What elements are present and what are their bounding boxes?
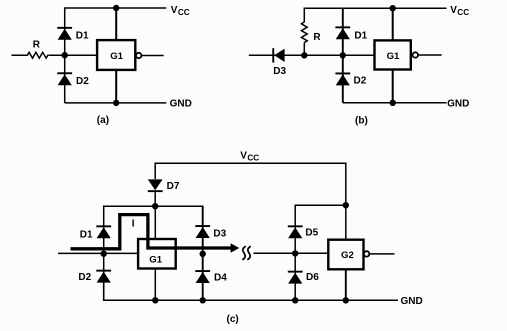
- diode D2 (a): [57, 72, 72, 85]
- wire output line G2 (c): [370, 253, 395, 255]
- svg-text:GND: GND: [401, 296, 423, 307]
- node D7 junction (c): [152, 203, 158, 209]
- wire D3-D4 branch vertical (c): [202, 206, 204, 300]
- svg-text:GND: GND: [447, 98, 469, 109]
- wire GND rail (c): [104, 282, 398, 300]
- wire G1 supply verticals (c): [154, 206, 156, 239]
- gate G2 (c): [328, 240, 363, 270]
- svg-text:GND: GND: [170, 98, 192, 109]
- svg-text:D2: D2: [76, 76, 89, 87]
- svg-text:D1: D1: [354, 31, 367, 42]
- svg-text:D6: D6: [306, 272, 319, 283]
- wire upper clamp rail left (c): [104, 206, 203, 226]
- svg-text:(b): (b): [355, 116, 368, 127]
- resistor R (a): [27, 52, 48, 58]
- wire input line (c): [58, 252, 138, 254]
- node R top junction (b): [301, 52, 307, 58]
- wire G2 lower vertical (c): [345, 269, 347, 300]
- svg-text:(a): (a): [97, 115, 109, 126]
- diode D3 (c): [195, 225, 210, 238]
- diode D4 (c): [195, 270, 210, 283]
- svg-text:R: R: [313, 32, 321, 43]
- diode D1 (b): [335, 26, 350, 39]
- wire R lower lead (b): [303, 43, 305, 56]
- svg-text:CC: CC: [178, 8, 190, 17]
- break squiggle (c): [242, 246, 246, 260]
- wire input line (a): [12, 54, 98, 56]
- resistor R (b): [301, 22, 307, 43]
- node D3 output junction (c): [200, 251, 206, 257]
- wire GND rail (b): [343, 102, 447, 104]
- svg-text:D2: D2: [78, 272, 91, 283]
- svg-text:D1: D1: [76, 31, 89, 42]
- node input junction (c): [101, 251, 107, 257]
- diode D1 (a): [57, 27, 72, 40]
- wire G1 supply verticals (a): [115, 8, 117, 40]
- gate G1 (b): [375, 40, 411, 69]
- svg-text:G1: G1: [387, 51, 400, 62]
- node VCC junction (b): [390, 5, 396, 11]
- wire D1-D2 branch vertical (c): [103, 226, 105, 301]
- node GND junction (a): [113, 100, 119, 106]
- wire output line (a): [142, 55, 164, 57]
- node input junction (a): [61, 52, 67, 58]
- node GND junction (b): [390, 100, 396, 106]
- diode D7 (c): [148, 179, 163, 192]
- svg-text:D1: D1: [80, 229, 93, 240]
- inverter bubble G1 output (b): [413, 52, 418, 57]
- svg-text:R: R: [33, 40, 41, 51]
- diode D6 (c): [288, 271, 303, 284]
- svg-text:D2: D2: [354, 75, 367, 86]
- node GND D4 junction (c): [200, 297, 206, 303]
- svg-text:V: V: [171, 5, 178, 16]
- svg-text:G1: G1: [149, 255, 162, 266]
- wire VCC rail (c): [155, 163, 346, 239]
- diode D3 (b): [272, 48, 284, 62]
- wire clamp diode branch vertical (b): [342, 8, 344, 103]
- wire GND rail (a): [65, 102, 167, 104]
- svg-text:V: V: [240, 150, 247, 161]
- svg-text:D3: D3: [213, 228, 226, 239]
- node clamp junction (b): [340, 52, 346, 58]
- wire VCC rail (b): [304, 8, 446, 22]
- node VCC-G2 junction (c): [343, 202, 349, 208]
- gate G1 (c): [138, 239, 176, 269]
- svg-text:CC: CC: [457, 8, 469, 17]
- current path arrowhead (c): [231, 243, 240, 253]
- svg-text:(c): (c): [227, 314, 239, 325]
- wire output line (b): [418, 54, 441, 56]
- diode D5 (c): [288, 225, 303, 238]
- svg-text:CC: CC: [247, 153, 259, 162]
- node VCC junction (a): [113, 5, 119, 11]
- svg-text:D7: D7: [167, 181, 180, 192]
- wire input line (b): [249, 54, 375, 56]
- node GND G1 junction (c): [152, 297, 158, 303]
- svg-text:G1: G1: [110, 51, 123, 62]
- svg-text:V: V: [450, 5, 457, 16]
- diode D1 (c): [96, 225, 111, 238]
- node GND G2 junction (c): [343, 297, 349, 303]
- current path I thick trace (c): [71, 215, 232, 249]
- diode D2 (b): [335, 73, 350, 86]
- inverter bubble G1 output (a): [136, 53, 141, 58]
- wire G1 supply verticals (b): [392, 8, 394, 40]
- diode D2 (c): [96, 270, 111, 283]
- svg-text:D4: D4: [214, 272, 227, 283]
- gate G1 (a): [97, 40, 135, 70]
- wire D5-D6 branch vertical (c): [294, 226, 296, 300]
- svg-text:I: I: [132, 219, 135, 230]
- svg-text:G2: G2: [341, 250, 354, 261]
- node GND D6 junction (c): [292, 297, 298, 303]
- node D5 input junction (c): [292, 250, 298, 256]
- wire output net to G2 (c): [254, 252, 329, 254]
- inverter bubble G2 output (c): [364, 251, 369, 256]
- wire D7 lower lead (c): [154, 192, 156, 206]
- svg-text:D3: D3: [273, 66, 286, 77]
- svg-text:D5: D5: [305, 228, 318, 239]
- wire upper clamp rail right (c): [295, 205, 346, 226]
- wire diode branch vertical (a): [65, 8, 167, 103]
